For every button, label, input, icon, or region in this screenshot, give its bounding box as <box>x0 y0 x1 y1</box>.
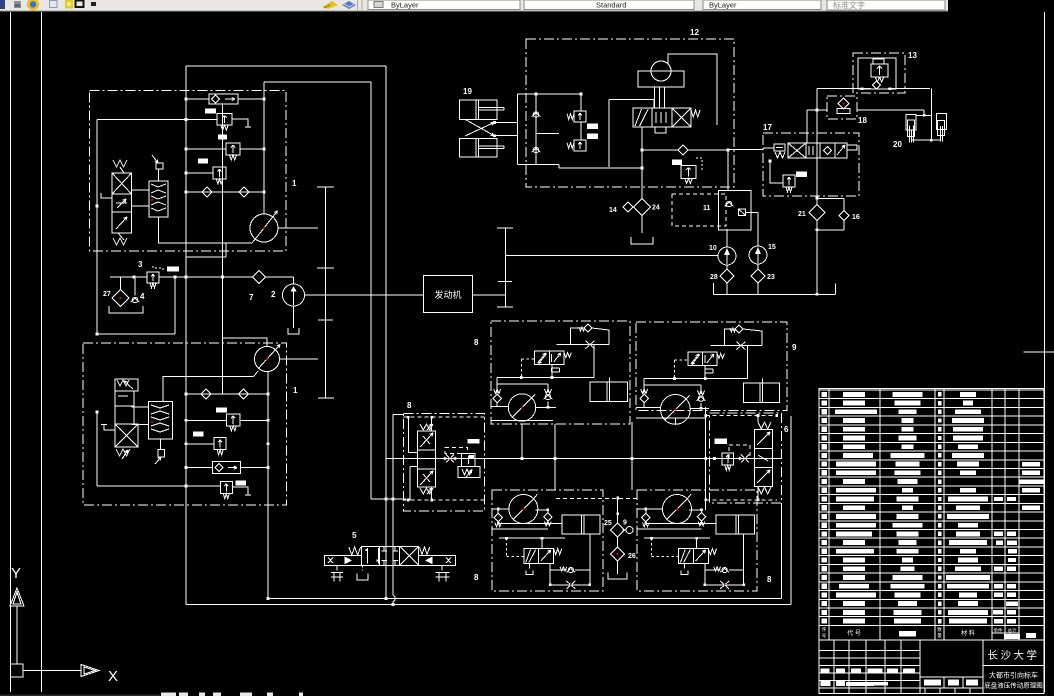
servo pilot valve <box>158 169 160 181</box>
tall rect bottom stub <box>186 256 226 258</box>
toolbar icon (printer) <box>14 1 21 8</box>
wire group13 left <box>817 88 871 90</box>
svg-text:10: 10 <box>709 245 717 252</box>
brake valve <box>535 351 550 365</box>
wire to accumulator <box>930 89 932 141</box>
wire brake cylinder feed <box>761 379 763 384</box>
relief valve R2 <box>226 143 240 155</box>
wire replenish loop <box>725 329 735 346</box>
wire pump2 to engine <box>305 294 424 296</box>
valve 5 spring right <box>419 547 429 554</box>
relief valve R5 blob <box>193 432 204 437</box>
UCS icon X arrowhead <box>81 665 99 677</box>
UCS icon X axis line <box>23 670 81 672</box>
throttle stack springs <box>420 424 433 430</box>
svg-text:代 号: 代 号 <box>847 629 861 637</box>
valve 5 left solenoid <box>325 555 362 565</box>
telescopic cylinder 20A <box>906 114 916 129</box>
group 17 enclosure (dash-dot) <box>763 133 859 196</box>
wire filter 21 riser <box>816 89 818 205</box>
brake cylinder <box>590 382 628 401</box>
title block bottom ticks <box>924 688 926 694</box>
valve 3 blob <box>167 267 179 272</box>
wire filter 16 <box>817 197 844 199</box>
title block signature grid <box>819 650 920 652</box>
directional valve DV12 <box>633 108 652 127</box>
wire to pump 2 <box>266 276 294 278</box>
wire filter drain <box>641 216 643 234</box>
wire pilot supply left <box>96 120 98 335</box>
valve 5 exhaust B <box>362 565 364 570</box>
flow group inner dashed bottom <box>403 499 484 501</box>
wire right trunk vertical <box>790 416 792 605</box>
toolbar icon (small black) <box>91 2 96 6</box>
relief valve R3 <box>213 167 226 179</box>
pressure label <box>467 439 479 444</box>
UCS icon origin square <box>11 664 24 677</box>
BOM table column lines <box>828 389 830 640</box>
valve 5 box C <box>400 546 419 565</box>
wheel motor <box>661 395 691 425</box>
wire pilot return loop <box>97 333 175 335</box>
brake release valve <box>524 549 539 564</box>
brake release valve <box>679 549 694 564</box>
valve 5 box B <box>380 546 400 565</box>
replenish loop check <box>579 327 585 331</box>
group 12 enclosure (dash-dot) <box>526 39 734 187</box>
replenish loop orifice <box>586 341 595 349</box>
svg-text:X: X <box>108 668 118 685</box>
wheel motor group enclosure (dash-dot) <box>636 322 787 411</box>
pilot dash drop <box>506 538 508 556</box>
relief valve R12b <box>574 140 586 151</box>
svg-text:20: 20 <box>893 140 902 149</box>
valve drain left <box>529 563 531 568</box>
check valve CV4 <box>239 389 249 399</box>
pressure valve left <box>461 453 475 466</box>
check-orifice right <box>741 455 749 463</box>
loop orifice <box>566 581 575 589</box>
relief valve R6 blob <box>235 480 246 485</box>
svg-text:23: 23 <box>767 274 775 281</box>
svg-text:12: 12 <box>690 28 699 37</box>
sheet border line right <box>1043 12 1045 692</box>
engine box <box>423 276 472 313</box>
wire pilot top <box>518 93 582 95</box>
wire block11 to pump <box>726 229 728 247</box>
wheel motor <box>508 394 535 421</box>
toolbar style combo <box>524 0 694 10</box>
wire valve feed <box>609 100 654 109</box>
filter 14 <box>623 202 633 212</box>
cylinder pilot circuit left vertical <box>535 94 537 165</box>
servo pilot lower <box>159 439 161 450</box>
wire pumps drain trunk <box>714 293 835 295</box>
relief valve R6 <box>220 482 232 494</box>
svg-text:13: 13 <box>908 51 917 60</box>
relief valve right group <box>722 453 734 465</box>
pump 15 <box>749 246 767 264</box>
wire manifold 1 <box>499 522 562 524</box>
wheel motor group enclosure (dash-dot) <box>492 490 603 591</box>
group 13 inner box <box>858 58 896 89</box>
wire inner rect top edge <box>264 81 371 83</box>
svg-text:标准文字: 标准文字 <box>833 0 865 10</box>
toolbar icon (yellow-blue round) <box>27 0 39 10</box>
svg-text:19: 19 <box>463 87 472 96</box>
relief valve R5 <box>214 438 226 450</box>
svg-text:底盘液压传动原理图: 底盘液压传动原理图 <box>984 681 1043 690</box>
main pump P1 <box>250 214 278 242</box>
element 18 enclosure (dash-dot) <box>827 96 857 119</box>
wire motor port stubs <box>492 508 509 510</box>
wire left group <box>436 458 462 460</box>
wire valve A-port down <box>641 133 643 199</box>
throttle stack right <box>755 430 773 449</box>
wire column vertical <box>222 104 224 394</box>
brake valve drain <box>704 366 706 369</box>
block 11 orifice <box>739 209 746 216</box>
svg-text:17: 17 <box>763 123 772 132</box>
check valve CV1 <box>202 187 212 197</box>
wire pump 2 drain <box>293 306 295 328</box>
wheel motor <box>509 495 538 524</box>
anti-cavitation check A <box>494 513 502 521</box>
tank center <box>608 573 627 580</box>
wire reservoirs bottom <box>912 139 941 141</box>
svg-text:3: 3 <box>138 260 143 269</box>
regulator pilot hook <box>101 193 112 198</box>
svg-text:ByLayer: ByLayer <box>391 1 419 10</box>
svg-text:25: 25 <box>604 520 612 527</box>
wire brake filter column <box>617 498 619 523</box>
relief valve R1 drain <box>232 119 248 127</box>
filter 16 <box>839 211 849 221</box>
wire pump15 up <box>757 212 759 246</box>
toolbar icon (yellow pointer) <box>322 1 338 9</box>
relief valve R12c blob <box>672 160 682 166</box>
wire trunk end stub <box>835 284 837 295</box>
svg-text:量: 量 <box>937 632 942 639</box>
tank under filter 24 <box>631 237 653 244</box>
relief valve R6 drain <box>232 487 248 495</box>
wire hop arc at trunk crossing <box>393 596 395 602</box>
svg-text:Standard: Standard <box>596 1 626 10</box>
filter 28 <box>720 269 734 283</box>
wire pilot line <box>499 537 565 539</box>
svg-text:8: 8 <box>474 573 479 582</box>
UCS icon Y arrowhead <box>10 588 24 606</box>
brake valve drain <box>551 365 553 368</box>
block 11 pilot box (dashed) <box>672 194 726 226</box>
toolbar text field <box>827 0 945 10</box>
gearbox shaft lower <box>318 397 334 399</box>
brake cylinder <box>716 515 754 534</box>
svg-text:15: 15 <box>768 244 776 251</box>
UCS icon Y axis line <box>16 606 18 664</box>
BOM table row lines <box>819 389 1044 391</box>
check circle <box>568 567 573 572</box>
pilot dash box right <box>729 445 750 459</box>
wire relief column <box>580 94 582 111</box>
pump 10 <box>718 247 736 265</box>
reducing valve 3 <box>147 272 159 283</box>
check valve CV13 <box>872 81 880 89</box>
title block stage cells <box>920 687 983 689</box>
anti-cavitation check A <box>641 389 648 394</box>
wire center distribution trunk <box>386 458 781 460</box>
BOM table row content blobs <box>822 392 828 397</box>
check valve CV18 <box>838 98 849 109</box>
stack port risers <box>407 417 409 452</box>
filter 25 <box>611 523 625 537</box>
wire main rect right edge <box>385 66 387 599</box>
orifice 18 <box>837 109 850 114</box>
relief R12b blob <box>587 134 598 140</box>
wire DV17 P port <box>806 110 808 143</box>
hydraulic motor M12 <box>651 61 671 81</box>
wire pump port vertical <box>263 82 265 214</box>
wire jog at node <box>371 498 406 500</box>
svg-text:28: 28 <box>710 274 718 281</box>
wire R17 hook <box>770 160 783 183</box>
wire bottom trunk 1 <box>268 598 782 600</box>
svg-text:6: 6 <box>784 425 789 434</box>
wheel motor group enclosure (dash-dot) <box>637 490 757 591</box>
svg-text:Y: Y <box>11 565 21 582</box>
wire manifold 2 <box>492 528 548 530</box>
wire cylinders to group 12 <box>495 122 518 124</box>
sheet border line left inner <box>41 12 43 692</box>
brake valve spring <box>717 354 724 359</box>
valve DV17 pilot box <box>774 144 785 151</box>
filter 24 <box>634 199 651 216</box>
svg-text:长沙大学: 长沙大学 <box>988 649 1040 662</box>
relief valve R1 <box>217 114 232 126</box>
unloading valve lower <box>212 462 240 474</box>
relief valve R12a <box>574 111 586 122</box>
wire main rect left edge <box>185 66 187 605</box>
replenish loop orifice <box>736 342 745 350</box>
filter 27 <box>112 290 129 307</box>
relief valve R12c <box>681 166 696 179</box>
svg-text:16: 16 <box>852 214 860 221</box>
wire manifold 1 <box>646 522 716 524</box>
svg-text:14: 14 <box>609 207 617 214</box>
title block center cell <box>920 676 983 678</box>
wire group manifold <box>497 377 594 379</box>
toolbar layer combo <box>368 0 520 10</box>
wire regulator-servo lower <box>132 406 149 408</box>
toolbar separator <box>357 0 358 10</box>
svg-text:8: 8 <box>474 338 479 347</box>
svg-text:9: 9 <box>623 520 627 527</box>
brake cylinder <box>744 383 780 402</box>
check valve CV2 <box>239 187 249 197</box>
regulator spring bottom lower <box>116 449 130 456</box>
check valve CV12 <box>678 145 688 155</box>
regulator spring top <box>113 160 127 167</box>
wire BL-BR dash link <box>556 498 637 500</box>
group 13 enclosure (dash-dot) <box>853 53 905 93</box>
wire manifold 2 <box>637 528 702 530</box>
pressure valve pilot dash <box>445 447 467 453</box>
anti-cavitation check B <box>698 391 705 396</box>
pump regulator valve stack <box>112 173 132 194</box>
filter 23 <box>751 269 765 283</box>
valve drain left <box>683 563 685 568</box>
svg-text:ByLayer: ByLayer <box>709 1 737 10</box>
servo cylinder lower <box>149 401 173 439</box>
wire elem18 right <box>857 109 924 111</box>
check valve 4 <box>132 297 138 303</box>
wire center vertical to valve 5 <box>392 415 394 596</box>
toolbar color combo <box>703 0 821 10</box>
wire inner rect right edge <box>370 82 372 499</box>
svg-text:8: 8 <box>767 575 772 584</box>
svg-text:1: 1 <box>293 386 298 395</box>
regulator pilot hook lower <box>104 425 115 431</box>
wire check risers <box>643 379 645 395</box>
valve 5 spring left <box>349 547 361 555</box>
svg-text:数: 数 <box>937 626 942 633</box>
valve 5 right solenoid <box>419 555 456 565</box>
pressure valve spring box <box>458 466 480 477</box>
wire reservoirs link <box>916 114 932 116</box>
relief valve R3 blob <box>198 159 208 164</box>
wire right group riser <box>705 407 707 510</box>
relief valve R4 <box>226 414 240 426</box>
svg-text:大都市引向标车: 大都市引向标车 <box>989 671 1038 680</box>
wire group13 right <box>888 88 930 90</box>
check circle <box>722 567 727 572</box>
valve DV12 spring <box>691 110 700 117</box>
toolbar icon (blue diamond layers) <box>342 1 356 9</box>
anti-cavitation check B <box>545 389 552 394</box>
relief valve R13 <box>871 64 888 77</box>
tank under filter 27 <box>109 306 143 313</box>
throttle stack left <box>417 431 435 450</box>
wire manifold x186 dots lower <box>185 393 188 396</box>
svg-text:9: 9 <box>792 343 797 352</box>
wire motor bottom line <box>636 417 706 419</box>
toolbar strip (cropped AutoCAD toolbar) <box>0 0 948 10</box>
brake release valve spring <box>554 549 562 555</box>
anti-cavitation check A <box>494 389 501 394</box>
toolbar icon (yellow) <box>65 0 73 9</box>
filter 26 <box>611 547 625 561</box>
brake valve pilot dashes <box>521 358 534 360</box>
cylinder cross link <box>465 119 494 135</box>
wire pilot line <box>644 537 710 539</box>
wire TL box risers <box>521 424 523 459</box>
brake release valve spring <box>708 549 716 555</box>
svg-text:27: 27 <box>103 291 111 298</box>
wire loop <box>549 563 551 585</box>
relief valve R17 blob <box>796 172 807 178</box>
wire group manifold 2 <box>644 384 701 386</box>
flow control group left enclosure (dash-dot) <box>403 413 484 511</box>
wire to block 11 <box>727 150 729 191</box>
relief valve R1 pilot blob <box>205 109 216 114</box>
wire pilot line lower <box>97 485 220 487</box>
wire pilot bottom <box>518 163 560 165</box>
wire DV17 left <box>763 147 774 149</box>
title block signature blobs <box>821 669 830 674</box>
flow group inner dashed top <box>403 416 484 418</box>
svg-text:1: 1 <box>292 179 297 188</box>
relief R12a blob <box>587 124 598 130</box>
relief valve R17 <box>783 175 795 187</box>
wire main rect top edge <box>186 65 386 67</box>
regulator stack lower <box>115 379 138 391</box>
svg-text:24: 24 <box>652 205 660 212</box>
svg-text:5: 5 <box>352 531 357 540</box>
check pair line lower <box>186 393 268 395</box>
valve DV12 tank tab <box>655 127 666 133</box>
svg-text:发动机: 发动机 <box>434 289 461 300</box>
wire manifold vertical x186 dots <box>185 98 188 101</box>
wire motor bypass <box>668 54 717 125</box>
wheel motor group enclosure (dash-dot) <box>491 321 630 424</box>
wire fragment at right edge <box>1024 351 1054 353</box>
servo cylinder with springs <box>149 181 168 217</box>
gearbox shaft <box>325 187 327 398</box>
svg-text:7: 7 <box>249 293 254 302</box>
wire motor bottom line <box>491 420 553 422</box>
wire servo drain <box>159 217 253 243</box>
svg-text:26: 26 <box>628 553 636 560</box>
tank under pump 2 <box>288 328 299 334</box>
check-orifice left <box>446 455 454 463</box>
wire regulator to servo <box>132 189 150 191</box>
svg-text:18: 18 <box>858 116 867 125</box>
wire pump top connection <box>223 337 267 339</box>
wire motor port stubs <box>637 508 663 510</box>
telescopic cylinder 20B <box>936 113 946 129</box>
filter 7 <box>253 271 266 284</box>
valve 5 exhaust A <box>336 565 338 570</box>
brake valve pilot dashes <box>675 359 688 361</box>
BOM table outer frame <box>819 389 1044 694</box>
block 11 <box>718 191 751 231</box>
wheel motor <box>663 495 692 524</box>
svg-text:11: 11 <box>703 205 711 212</box>
toolbar icon (black frame) <box>76 1 84 8</box>
wire right group <box>690 458 755 460</box>
filter 21 <box>809 205 825 221</box>
pump station 1 enclosure (dash-dot) <box>90 91 287 252</box>
svg-text:4: 4 <box>140 292 145 301</box>
wire replenish loop <box>571 328 585 345</box>
svg-text:序: 序 <box>822 626 827 633</box>
relief valve R2 blob <box>218 135 227 140</box>
valve 5 exhaust C <box>441 565 443 570</box>
svg-text:2: 2 <box>271 290 276 299</box>
wire group manifold <box>644 378 747 380</box>
wire engine to gearbox <box>473 294 506 296</box>
sheet border line left outer <box>10 12 12 692</box>
relief valve right group blob <box>715 438 728 444</box>
wire servo pilot to pump <box>163 377 254 402</box>
wire bottom trunk 2 <box>186 604 791 606</box>
wire pump shaft <box>278 227 318 229</box>
anti-cavitation check A <box>642 513 650 521</box>
check valve pair line <box>186 191 264 193</box>
valve DV17 spring <box>775 152 785 158</box>
regulator spring bottom <box>113 238 127 245</box>
wire pressure line y277 <box>110 276 147 278</box>
